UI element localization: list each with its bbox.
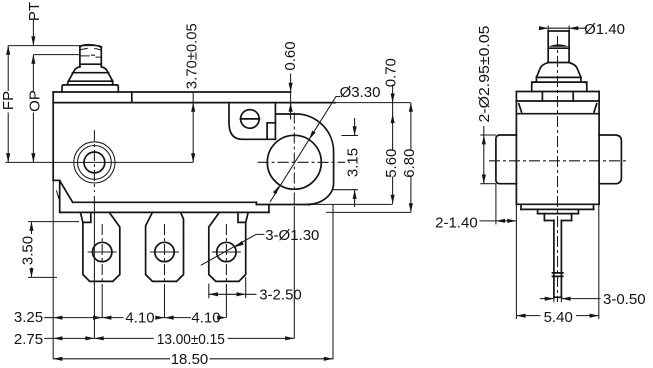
dimension 5.60 (383, 149, 400, 204)
svg-text:2-Ø2.95±0.05: 2-Ø2.95±0.05 (476, 26, 493, 123)
big hole vertical centerline (293, 113, 295, 339)
side left ear boss (496, 135, 517, 184)
svg-text:3-2.50: 3-2.50 (259, 287, 302, 304)
side body outline (516, 92, 599, 205)
side right ear boss (599, 135, 621, 184)
screw bracket (229, 103, 275, 140)
mounting hole vertical centerline (93, 130, 95, 338)
dimension Ø1.40 (539, 21, 625, 38)
svg-text:3.70±0.05: 3.70±0.05 (183, 23, 200, 89)
side bottom plate (521, 204, 594, 209)
svg-text:Ø1.40: Ø1.40 (584, 21, 625, 38)
terminal 3 nub (238, 212, 248, 222)
dimension OP (26, 64, 43, 163)
dimension 0.70 (383, 58, 400, 150)
dimension 0.60 (282, 41, 299, 119)
svg-text:3-Ø1.30: 3-Ø1.30 (265, 227, 319, 244)
side terminal molding tiers (538, 209, 579, 220)
terminal 1 nub (80, 212, 90, 222)
dimension 3-Ø1.30 leader (201, 227, 320, 265)
dimension 3.70±0.05 (183, 23, 200, 162)
svg-text:3.25: 3.25 (14, 309, 43, 326)
side plunger pin (548, 31, 569, 63)
terminal 1 tab (83, 212, 120, 281)
mounting hole (84, 152, 105, 173)
plunger base tier 1 (68, 81, 113, 85)
terminal 3 tab (209, 212, 246, 281)
terminal 3 hole (212, 242, 241, 261)
dimension 18.50 (53, 205, 333, 368)
svg-text:2-1.40: 2-1.40 (435, 215, 478, 232)
dimension 4.10 (second) (165, 310, 227, 327)
mounting hole boss rings (74, 142, 115, 183)
bottom plate (60, 202, 310, 212)
dimension 3-2.50 (209, 277, 302, 304)
switch body left edge (53, 92, 60, 359)
svg-text:PT: PT (26, 2, 43, 21)
dimension 3.15 (332, 118, 361, 207)
free position line (8, 45, 100, 47)
plunger flare cone (68, 67, 112, 81)
side plunger cone (536, 63, 581, 78)
terminal 2 hole (150, 242, 179, 261)
dimension 5.40 (516, 204, 598, 326)
svg-text:OP: OP (26, 90, 43, 112)
dimension 13.00±0.15 (44, 331, 294, 348)
dimension 4.10 (first) (53, 310, 191, 327)
terminal centerlines (102, 224, 226, 318)
side body top cover rows (516, 92, 599, 114)
dimension 2-Ø2.95±0.05 (476, 26, 496, 184)
operating position line (33, 54, 79, 56)
svg-text:5.40: 5.40 (544, 309, 573, 326)
svg-text:3-0.50: 3-0.50 (603, 291, 646, 308)
svg-text:0.70: 0.70 (383, 58, 400, 87)
main horizontal centerline (6, 161, 194, 163)
plunger cap (80, 45, 101, 67)
screw head (240, 110, 259, 129)
dimension 6.80 (310, 103, 418, 213)
dimension Ø3.30 leader (270, 84, 380, 202)
dimension 2.75 (14, 331, 95, 348)
dimension 2-1.40 (435, 184, 516, 319)
svg-text:13.00±0.15: 13.00±0.15 (157, 331, 225, 348)
svg-text:4.10: 4.10 (191, 310, 220, 327)
latch barb detail (56, 190, 60, 198)
svg-text:0.60: 0.60 (282, 41, 299, 70)
dimension PT (26, 2, 43, 64)
svg-text:FP: FP (0, 91, 17, 110)
big hole Ø3.30 (267, 135, 321, 189)
svg-text:3.15: 3.15 (345, 148, 362, 177)
terminal 1 hole (88, 242, 117, 261)
svg-text:18.50: 18.50 (171, 351, 209, 368)
svg-text:2.75: 2.75 (14, 331, 43, 348)
side plunger base tiers (532, 77, 587, 91)
svg-text:4.10: 4.10 (125, 310, 154, 327)
svg-text:3.50: 3.50 (19, 236, 36, 265)
dimension 3.25 (14, 309, 102, 326)
plunger base tier 2 (62, 85, 118, 92)
dimension 3-0.50 (540, 291, 646, 308)
side terminal pin (553, 221, 563, 298)
bottom-left slant chamfer (60, 181, 73, 202)
big hole horizontal centerline (258, 161, 345, 163)
side horizontal centerline (489, 160, 629, 162)
svg-text:5.60: 5.60 (383, 149, 400, 178)
side vertical centerline (557, 36, 559, 302)
svg-text:Ø3.30: Ø3.30 (340, 84, 381, 101)
switch body top cover band (53, 92, 410, 103)
terminal 2 tab (146, 212, 184, 281)
right boss lobe (276, 114, 334, 204)
dimension 3.50 (19, 222, 79, 278)
svg-text:6.80: 6.80 (401, 149, 418, 178)
dimension FP (0, 46, 17, 163)
